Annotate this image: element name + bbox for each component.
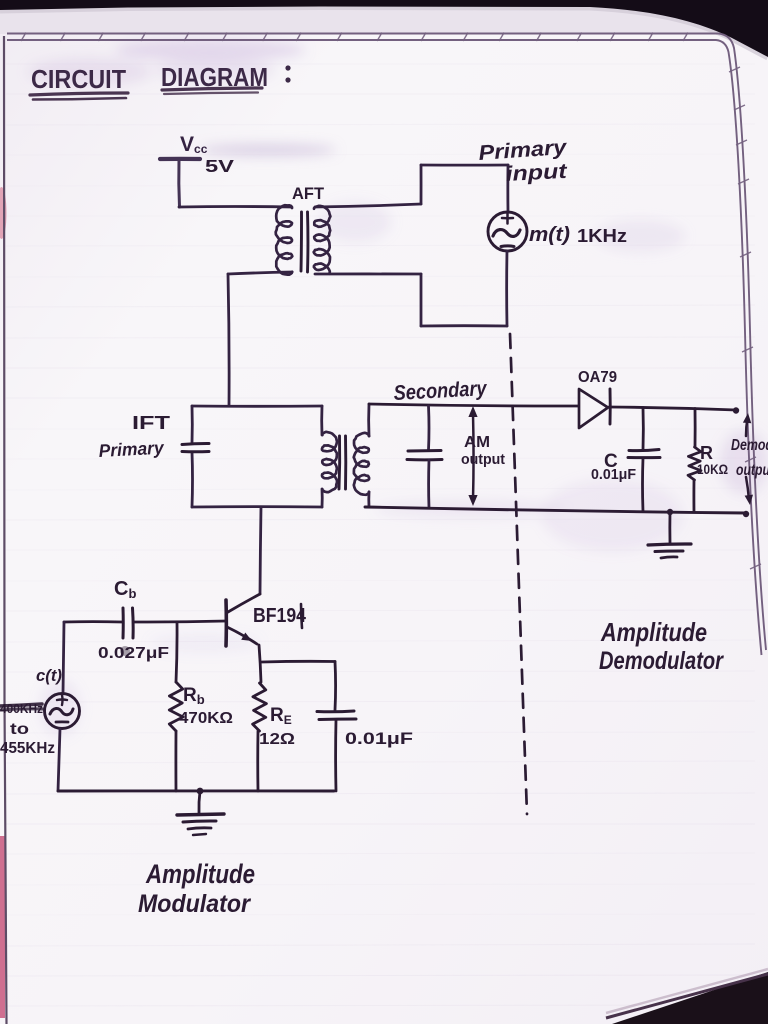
svg-text:Demod: Demod bbox=[731, 437, 768, 454]
svg-text:Modulator: Modulator bbox=[138, 890, 251, 918]
svg-text:output: output bbox=[461, 451, 505, 468]
svg-text:Demodulator: Demodulator bbox=[599, 647, 724, 675]
svg-text:AM: AM bbox=[464, 434, 490, 451]
svg-text:OA79: OA79 bbox=[578, 369, 617, 386]
svg-text:10KΩ: 10KΩ bbox=[697, 462, 728, 477]
svg-text:Secondary: Secondary bbox=[393, 377, 488, 405]
svg-text:BF194: BF194 bbox=[253, 605, 307, 627]
svg-text:output: output bbox=[736, 462, 768, 479]
svg-text:R: R bbox=[700, 443, 713, 463]
svg-text:Amplitude: Amplitude bbox=[600, 617, 707, 647]
svg-text:to: to bbox=[10, 721, 29, 738]
svg-text:IFT: IFT bbox=[132, 413, 170, 433]
svg-text:470KΩ: 470KΩ bbox=[179, 710, 233, 727]
svg-text:CIRCUIT: CIRCUIT bbox=[31, 64, 126, 94]
svg-text:m(t): m(t) bbox=[529, 224, 570, 246]
svg-text:5V: 5V bbox=[205, 156, 234, 176]
svg-text:c(t): c(t) bbox=[36, 666, 62, 685]
svg-text:0.01μF: 0.01μF bbox=[345, 730, 413, 748]
svg-text:455KHz: 455KHz bbox=[0, 740, 55, 757]
svg-text:0.01μF: 0.01μF bbox=[591, 467, 636, 483]
svg-text:input: input bbox=[505, 160, 568, 186]
svg-text:AFT: AFT bbox=[292, 184, 325, 203]
svg-text:12Ω: 12Ω bbox=[259, 731, 295, 748]
svg-text:Primary: Primary bbox=[98, 438, 165, 461]
svg-text:1KHz: 1KHz bbox=[577, 226, 627, 246]
svg-text:Amplitude: Amplitude bbox=[145, 859, 255, 889]
svg-text:0.027μF: 0.027μF bbox=[98, 645, 169, 662]
